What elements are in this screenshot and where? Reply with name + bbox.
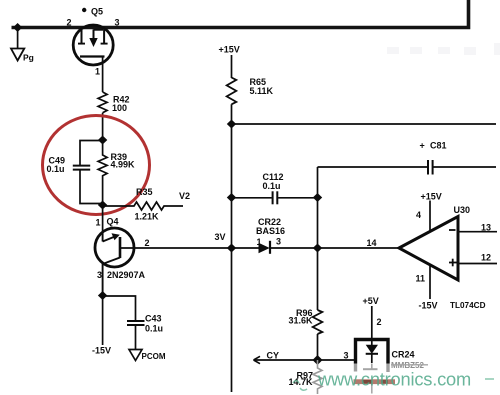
wire: node D to C43 (103, 296, 136, 321)
svg-text:U30: U30 (454, 205, 471, 215)
svg-text:C43: C43 (145, 314, 162, 324)
svg-text:+15V: +15V (421, 192, 442, 202)
wire: +5V to CR24 pin 2 (371, 306, 373, 345)
wire: right column x=317.5 (317, 167, 319, 310)
op-amp U30 (399, 217, 458, 281)
node D (below Q4) (98, 291, 107, 300)
svg-text:14.7K: 14.7K (289, 377, 314, 387)
wire: C112 left lead (232, 197, 272, 199)
svg-text:4: 4 (416, 210, 421, 220)
svg-text:2: 2 (145, 238, 150, 248)
label Q5 (82, 8, 86, 12)
resistor R97 (faded) (313, 360, 322, 394)
highlight red circle (43, 116, 150, 215)
op-amp minus symbol (449, 229, 456, 231)
capacitor C49 branch wires (80, 141, 103, 166)
resistor R42 (98, 92, 107, 113)
svg-text:3: 3 (276, 237, 281, 247)
svg-text:0.1u: 0.1u (145, 324, 163, 334)
svg-text:CR24: CR24 (392, 350, 415, 360)
watermark green fragments (293, 379, 494, 390)
wire: op-amp pin 12 input (458, 263, 497, 265)
svg-text:-15V: -15V (92, 346, 111, 356)
svg-text:5.11K: 5.11K (250, 86, 274, 96)
wire: node C to Q4 emitter (102, 205, 104, 232)
resistor R96 (313, 310, 323, 334)
svg-text:+15V: +15V (219, 45, 240, 55)
svg-text:14: 14 (367, 238, 377, 248)
wire: op-amp pin 4 (+15V) (429, 201, 431, 232)
wire: C81 rail left (318, 166, 428, 168)
node A (top-left junction) (13, 23, 22, 32)
svg-text:0.1u: 0.1u (47, 164, 65, 174)
svg-text:100: 100 (112, 103, 127, 113)
zener CR24 diode (366, 345, 378, 354)
erased watermark smudges top right (387, 43, 500, 55)
ground PCOM (129, 350, 142, 361)
wire: thick top bus (12, 0, 469, 28)
svg-text:Pg: Pg (23, 53, 34, 63)
label CY with arrow (254, 359, 356, 361)
capacitor C43 (127, 320, 145, 322)
svg-text:2N2907A: 2N2907A (107, 270, 146, 280)
svg-text:0.1u: 0.1u (263, 181, 281, 191)
node F (C112 left) (227, 193, 236, 202)
svg-text:2: 2 (377, 317, 382, 327)
node C (bottom of R39/C49) (98, 201, 107, 210)
transistor Q4 (2N2907A PNP) (95, 228, 134, 296)
node B (top of R39/C49) (98, 136, 107, 145)
wire: C43 to PCOM (135, 325, 137, 350)
svg-text:11: 11 (416, 274, 426, 284)
wire: C81 rail right (433, 166, 496, 168)
svg-text:1: 1 (96, 218, 101, 228)
wire: node D to -15V (102, 296, 104, 346)
ground Pg (11, 49, 24, 61)
node H (3V node) (227, 244, 236, 253)
svg-text:Q5: Q5 (91, 7, 103, 17)
svg-text:R35: R35 (136, 187, 153, 197)
svg-text:12: 12 (481, 253, 491, 263)
wire: op-amp output pin 14 (318, 247, 400, 249)
wire: R65 to middle column (231, 104, 233, 392)
wire: long rail y=124 (232, 123, 497, 125)
svg-text:PCOM: PCOM (142, 352, 166, 361)
wire: node A to Pg ground (17, 28, 19, 49)
zener CR24 box (356, 340, 389, 364)
wire: +15V to R65 (231, 55, 233, 78)
capacitor C49 (73, 165, 90, 167)
svg-text:Q4: Q4 (107, 217, 119, 227)
svg-text:+5V: +5V (363, 296, 379, 306)
svg-text:1.21K: 1.21K (135, 212, 160, 222)
wire: Q5 pin1 to R42 (102, 57, 104, 93)
svg-text:V2: V2 (179, 191, 190, 201)
resistor R39 (98, 140, 107, 205)
node J (CY / R96 / R97 junction) (313, 355, 323, 365)
diode CR22 (232, 247, 259, 249)
svg-text:-15V: -15V (419, 301, 438, 311)
capacitor C112 (272, 191, 274, 204)
resistor R65 (227, 78, 237, 105)
wire: op-amp pin 13 input (458, 231, 497, 233)
svg-text:1: 1 (257, 237, 262, 247)
resistor R35 (103, 202, 183, 210)
wire: Q4 base to 3V node (120, 247, 232, 249)
svg-text:31.6K: 31.6K (289, 316, 314, 326)
wire: R42 to node B (102, 113, 104, 140)
svg-text:3: 3 (115, 18, 120, 28)
svg-text:4.99K: 4.99K (111, 160, 136, 170)
node E (R65 bottom / +15V rail tap) (227, 120, 236, 129)
svg-text:3: 3 (344, 351, 349, 361)
svg-text:C81: C81 (430, 141, 447, 151)
capacitor C81 (427, 160, 429, 175)
svg-text:BAS16: BAS16 (256, 226, 285, 236)
node G (C112 right) (313, 193, 322, 202)
svg-text:13: 13 (481, 223, 491, 233)
op-amp plus symbol (449, 262, 457, 264)
wire: C112 right lead (278, 197, 317, 199)
svg-text:www.cntronics.com: www.cntronics.com (317, 369, 471, 390)
svg-text:1: 1 (95, 67, 100, 77)
node I (CR22 cathode junction) (313, 244, 322, 253)
svg-text:+: + (420, 141, 425, 151)
svg-text:3V: 3V (215, 232, 226, 242)
svg-text:TL074CD: TL074CD (450, 301, 486, 310)
svg-text:3: 3 (97, 270, 102, 280)
svg-text:CY: CY (267, 351, 280, 361)
svg-text:2: 2 (67, 18, 72, 28)
wire: op-amp pin 11 (-15V) (429, 265, 431, 300)
transistor Q5 (FET, circle) (73, 25, 113, 65)
watermark red smudge (354, 379, 396, 384)
